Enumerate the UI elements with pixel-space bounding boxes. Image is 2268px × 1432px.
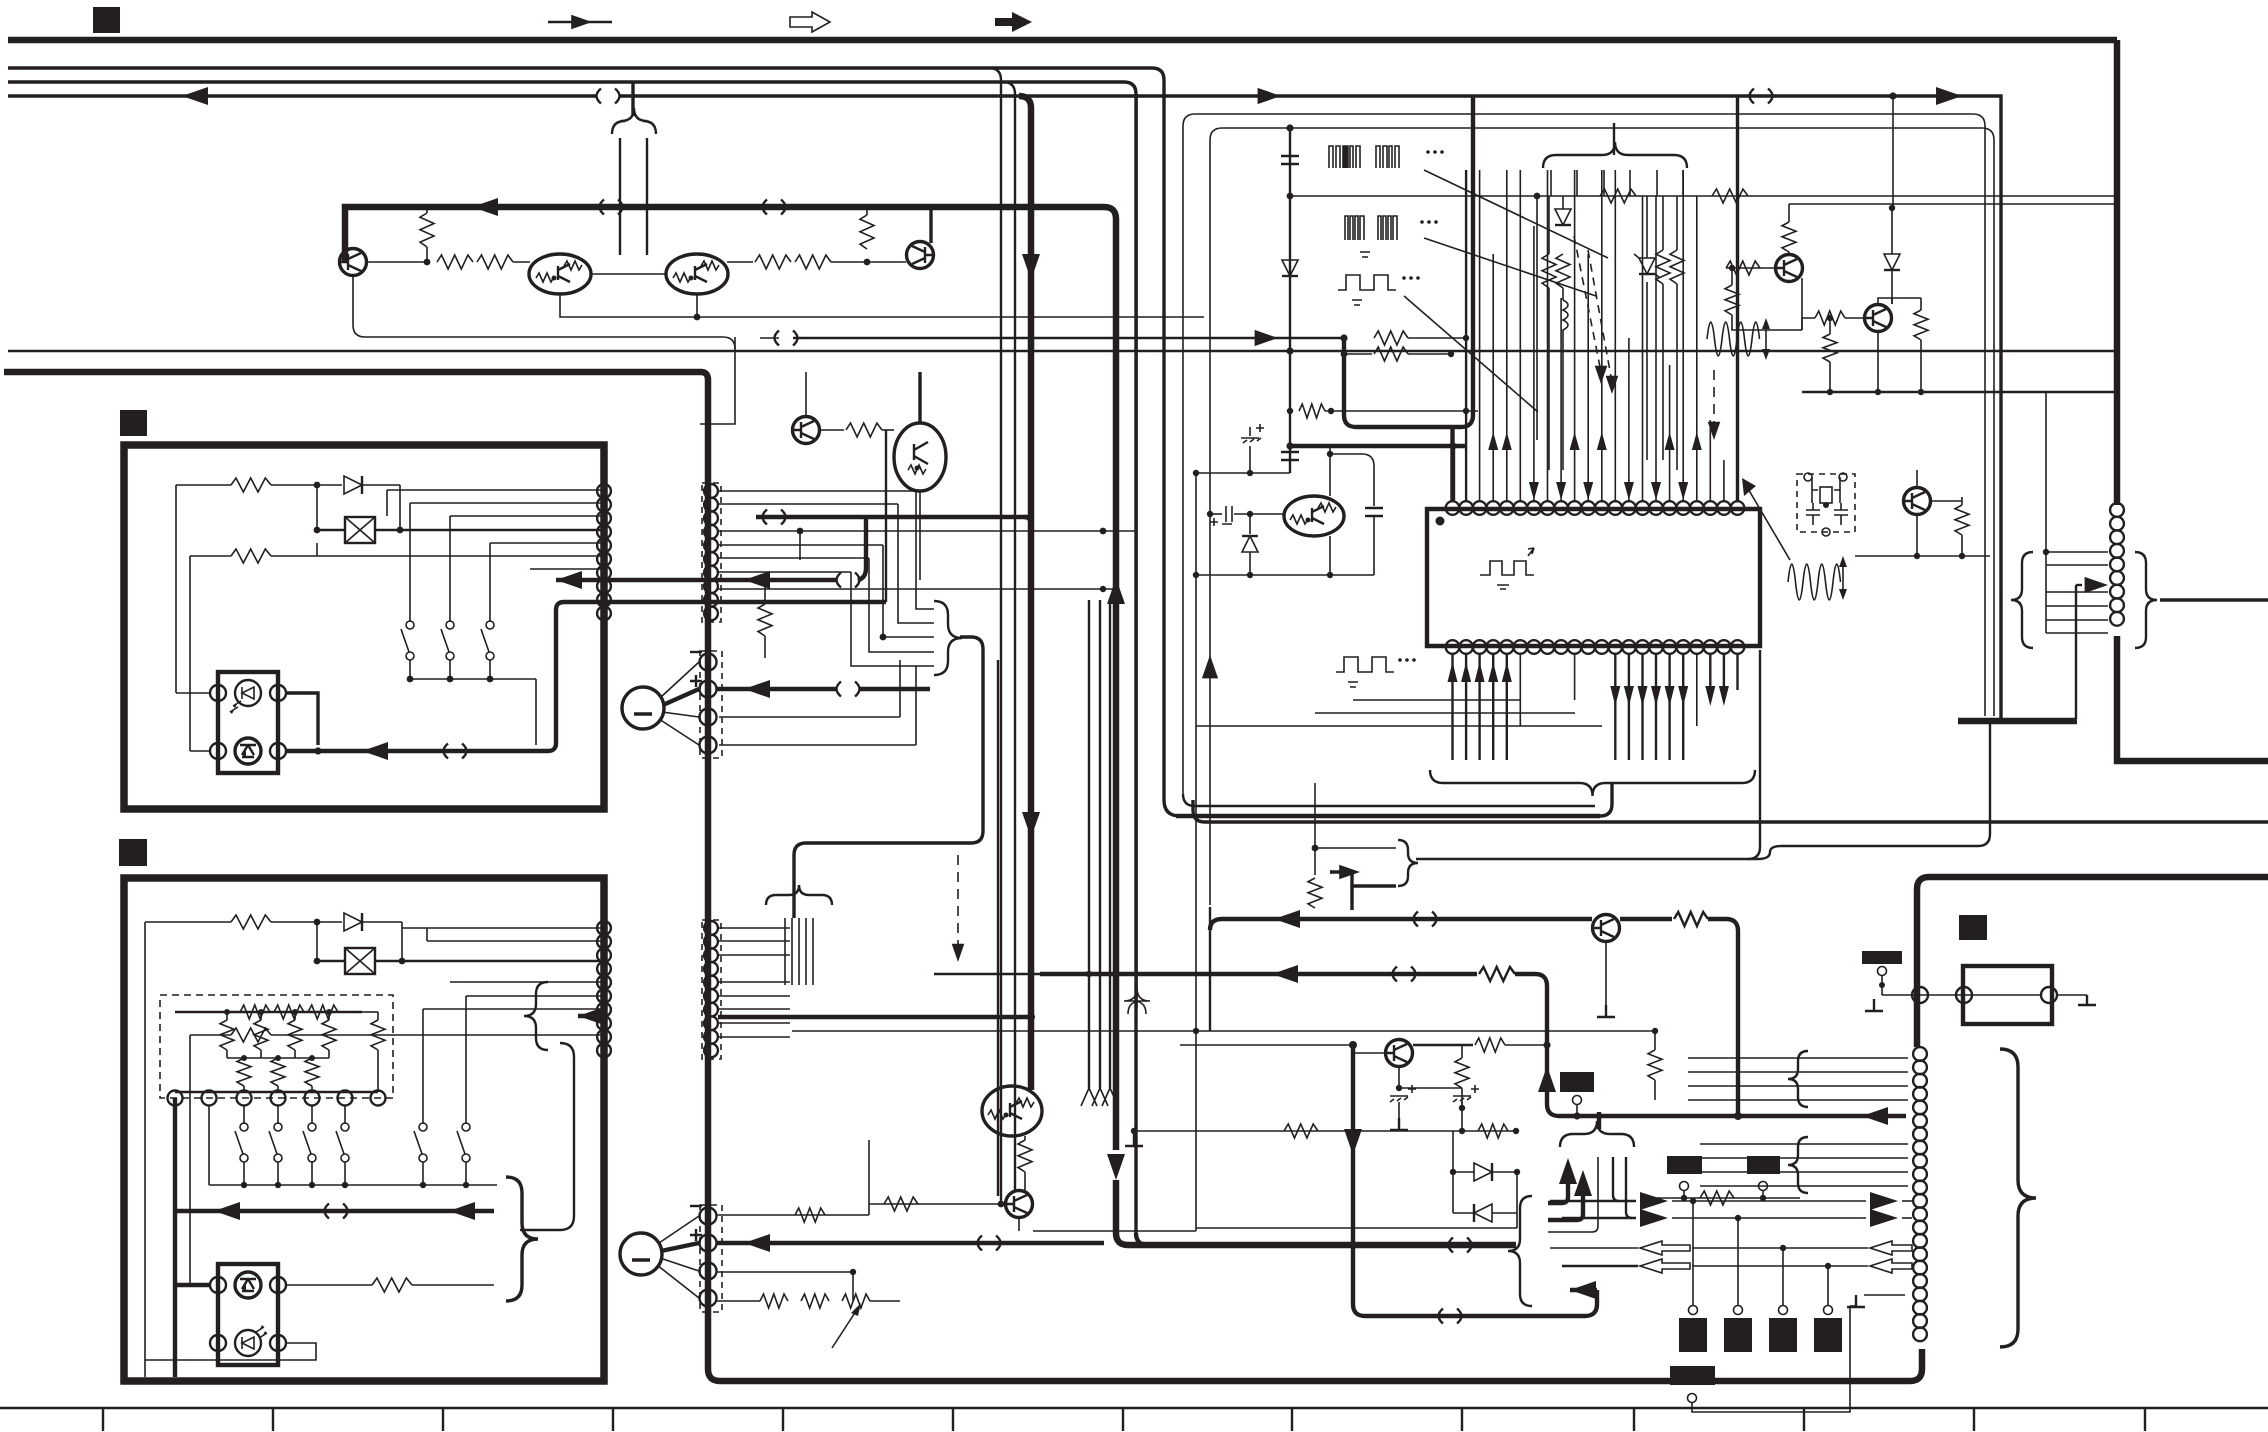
photo sensor Q8 [235,1272,261,1298]
black right arrow row 2 [1640,1209,1668,1227]
thick wire x=175 down to opto [173,1211,177,1377]
resistor R14 [231,1028,271,1042]
ground symbol right of fuse [2078,995,2096,1005]
trimmer arrow for VR1 [832,1308,858,1348]
junction dot y=1031 right end [1652,1028,1658,1034]
junction dot x=1738 on y=1116 [1734,1112,1742,1120]
arrowhead on fourth bus pointing right (mid) [1258,88,1281,104]
white outline left arrow row 3 [1640,1241,1690,1255]
wire matrix mid rail [227,1057,329,1059]
wire y=1045 into x=1353 [1180,1044,1353,1046]
wire pin to switch [344,1106,346,1124]
resistor R21 (vertical) [322,1020,336,1050]
wire down to fuse line 2 [401,922,403,961]
box frame: bottom right left edge lower [1910,1349,1922,1381]
label plus M2 [690,1229,702,1241]
wire left stub up [868,1140,870,1204]
corner x=1210 into y=919 [1210,919,1222,930]
terminal circle fuse left [1956,987,1972,1003]
arrowhead down on x=1031 wire (lower) [1022,812,1040,838]
thick vertical x=1116 corner into y=1245 rail [1116,1180,1128,1245]
wire R7 top [866,207,868,215]
wire M1 to minus terminal [661,662,699,697]
wire pin2 down [208,1106,210,1185]
IC U1 pin-1 marker dot [1436,517,1445,526]
electrolytic capacitor C10 [1390,1096,1408,1102]
terminal circle M1 aux2 [700,737,717,754]
opto block frame (box 1) [218,672,278,773]
resistor R55 [1475,1038,1505,1052]
dashed leader with arrow 1 [1574,236,1601,372]
arrowhead right on elbow wire [1339,865,1360,879]
resistor R47 (vertical) [1648,1050,1662,1080]
resistor R39 (vertical) [1725,285,1739,315]
wire rail y=556 [1855,555,1990,557]
junction dot y=1045 on riser [1543,1041,1550,1048]
junction dot fuse right [397,527,404,534]
wire rail y=196 [1290,195,2120,197]
arrowhead on fourth bus pointing left [182,87,208,105]
legend arrow 2 (open outline arrow) [790,12,830,32]
terminal circle M2 plus [700,1235,717,1252]
wire left rail to resistor R13 [145,921,231,923]
dashed leader with arrow 2 [1588,250,1612,382]
pulse waveform glyph 1 [1343,146,1348,168]
wire M2 terminal row 1 right [717,1214,869,1216]
small brace over comb [766,885,832,905]
brace over region G group [1560,1121,1634,1147]
arrowhead on fourth bus pointing right [1936,87,1962,105]
ground symbol x=1134 [1125,1134,1143,1146]
switch SW4a [240,1123,248,1131]
wire D8 row [1453,1171,1517,1173]
junction dot SW2 [447,676,454,683]
wire pin to switch [243,1106,245,1124]
wires D6/R35/R36 tops [1647,196,1677,258]
thick wire y=1016 from connector CN3 [578,1014,601,1018]
transistor Q9 [1776,255,1803,282]
thick wire y=602 through connector to x=886 [564,600,886,604]
wire arrow row 3 [1550,1247,1638,1249]
bus wire: thick bus to right edge at y=762 [2117,636,2268,761]
wire R39 to emitter node [1732,268,1802,330]
wire stub [1881,975,1883,995]
wire connector CN1 row 1 [387,489,601,491]
wire CN2 row4 right [718,544,883,546]
wire L1 down [1562,340,1564,470]
wire D10 down to rail y=575 [1249,552,1251,575]
thick bottom rail y=1381 [720,1378,1910,1385]
wire break on y=207 bus [600,200,623,215]
arrowhead left on y=1211 wire [214,1202,240,1220]
wire into opto top-left terminal [176,692,210,694]
wire M2 to aux1 [660,1258,699,1271]
wire stub G1 [1576,1104,1578,1116]
capacitor C4 [1365,508,1383,516]
wire vertical x=1100 [1099,600,1101,1088]
wire rounded path from brace down to y=1230 [520,1043,574,1230]
wire switch to bus [465,1162,467,1185]
wire drop x=1598 corner left [1548,1157,1598,1232]
wire M2 aux1 right [717,1271,853,1273]
dashed frame around connector CN2 [702,483,721,622]
dashed vertical leader with arrow [1713,370,1715,428]
crystal X1 dashed box [1797,474,1855,532]
wires from IC U1 bottom pins [1451,654,1453,760]
arrowhead up on x=1210 wire [1202,655,1218,678]
sine waveform symbol 2 [1788,564,1841,600]
wire: Q1 collector up-over line y=337 turning down at x=735 [353,276,735,349]
black square K3 [1769,1318,1797,1352]
wire aux1 step up [899,660,901,717]
wire aux2 step up [915,666,917,745]
thick bus corner down into vertical x=1116 [1104,207,1116,1150]
wire break on y=751 wire [444,744,467,759]
corner into y=1116 [1547,1104,1559,1116]
dashed vertical leader middle [957,855,959,950]
wire break on y=580 bus [837,573,860,588]
wire switch common bus y=1185 [209,1184,497,1186]
small brace x=1137 [1124,988,1150,1014]
resistor R36 (vertical) [1670,250,1684,284]
terminal circle opto2 top-right [270,1277,286,1293]
switch SW2 [446,621,454,629]
wire stepping into brace (5th) [851,572,934,666]
wire: vertical from y=337 corner to Q5 area [700,337,735,424]
wire switch SW3 feed [489,543,491,622]
fuse block rectangle [1963,966,2052,1024]
resistor R6 [795,255,831,269]
up arrowheads on IC bottom pin wires [1448,662,1458,682]
junction dot at R7 base node [864,259,871,266]
ground symbol x=1874 [1865,999,1883,1011]
wire y=806 from x=1183 corner heading right [1183,794,1595,806]
wire y=974 thin left part [934,973,1040,975]
resistor R25 (vertical) [371,1020,385,1050]
wire Q11 leads [1916,470,1918,556]
wire M2 to minus [659,1216,699,1243]
wire jog y=859 to y=846 to vertical x=1990 [1748,723,1990,859]
resistor R38 [1726,261,1760,275]
thick wire y=689 right of break [860,687,930,691]
transistor package Q4 (dual) [666,254,728,294]
junction dot x=1290 y=351 [1286,347,1293,354]
wire connector CN1 row 2 [410,502,601,504]
wire y=354 stub [1344,353,1372,355]
leader line from glyph 1 [1424,170,1608,258]
terminal circle M2 aux1 [700,1263,717,1280]
arrowhead pointing right on y=338 wire [1255,330,1278,346]
bus wire: main thick top bus [8,37,2117,44]
junction dot rail y=196 [1534,193,1541,200]
thick wire y=1243 from M2 plus to x=1104 [717,1241,1104,1245]
terminal circle M1 minus [700,654,717,671]
bold up arrow 2 [1574,1170,1592,1196]
wire resistor R2 bottom [426,247,428,262]
curly brace grouping wires to servo [934,601,962,675]
transistor package Q6 (vertical dual) [894,423,946,491]
resistor R33 (vertical) [1542,254,1556,288]
wire R26 right to brace [412,1284,494,1286]
wire: nested line y=128 from x=1210 to x=1994 [1210,128,1994,905]
wire break on y=1211 wire [325,1204,348,1219]
resistor R3 [437,255,473,269]
thick wire y=919 right of Q12 [1620,917,1672,921]
black label square P2 [1959,915,1987,940]
thick wire M1 to plus terminal [663,689,699,705]
junction dot on fourth bus [1889,92,1896,99]
resistor R32 [1712,189,1748,203]
thick bus y=517 [756,515,1028,519]
wire down to fuse line [399,485,401,530]
junction dot y=1272 [850,1269,856,1275]
brace left side region G [1508,1196,1532,1306]
wire Q10 emitter down [1877,332,1879,392]
wire C4 down to rail y=575 [1373,516,1375,575]
wire Q4 to resistor R5 [727,261,753,263]
wire y=995 through fuse block [1882,994,2042,996]
wire thin rail y=473 [1196,472,1290,474]
terminal circle matrix pin 1 [168,1091,183,1106]
switch SW6 [462,1123,470,1131]
wire emitter loop extension right [697,316,1204,318]
terminal circle matrix pin 3 [237,1091,252,1106]
wire break symbol on fourth bus [597,89,620,104]
down arrowheads on IC top pin wires [1529,482,1539,500]
wire from opto to corner [286,693,318,745]
motor M1 (capstan) [622,687,664,729]
wire to CN6 [1864,1294,1905,1296]
arrowhead left on y=974 wire [1272,965,1298,983]
thick rail y=1245 into brace tip [1128,1242,1516,1249]
wire R14 to connector CN3 [271,1034,601,1036]
resistor R44 [1674,912,1708,926]
wire SW2 to bus [449,660,451,679]
resistor R45 (vertical) [1455,1058,1469,1088]
transistor package Q3 (dual) [529,254,591,294]
wire connector CN1 row 4 [490,542,601,544]
wire resistor R2 top [426,207,428,213]
thick rail y=446 [1290,444,1466,448]
section label square 3 [119,839,147,866]
wire M1 to aux1 [662,712,699,717]
terminal circle opto2 bottom-left [210,1335,226,1351]
wire R40 to Q10 base [1845,317,1864,319]
arrowhead pointing up on vertical x=1116 [1107,578,1125,604]
wire opto2 bottom return [145,1343,316,1360]
junction dot x=1290 on rail y=196 [1287,193,1294,200]
resistor R20 (vertical) [288,1020,302,1050]
wire: emitter return loop under packages [560,294,697,317]
arrowhead left at end of x=1597 riser [1570,1281,1596,1299]
wire down from junction 2 [316,922,318,961]
terminal circle opto bottom-left [210,743,226,759]
diode D5 [1555,209,1571,225]
wire drop x=1613 corner right into arrow row 1 [1613,1157,1619,1201]
wire D7 leads [1891,208,1893,304]
label minus M1 [690,651,702,653]
wire y=338 stub left of break [760,337,779,339]
photo sensor Q7 [235,738,261,764]
wire y=514 to package Q22 [1234,513,1284,515]
wire R37 leads [1788,204,1790,254]
wire to resistor R14 [190,1034,231,1036]
small circle under label P1 [1878,967,1887,976]
terminal circle on CN6 bus [1912,987,1928,1003]
junction dot y=974 b [1112,970,1119,977]
wire: vertical x=1001 from bus y=68 down to transistor Q20 [989,68,1001,1196]
amplitude arrow 1 [1765,326,1767,352]
transistor Q10 [1865,305,1892,332]
wire: left feed line to transistor package Q3 [619,138,621,255]
brace stem wire down [1600,784,1612,816]
wire break on y=1316 [1439,1309,1462,1324]
terminal circle M2 minus [700,1208,717,1225]
wire loop from G4 [1692,1306,1850,1412]
terminal circle matrix pin 5 [305,1091,320,1106]
arrowhead down on x=1353 [1344,1129,1362,1155]
thick wire y=1211 [175,1209,494,1213]
thick wire pin1 feed [1451,446,1455,500]
transistor Q5 [793,417,820,444]
wire CN4 row right y=1023 [718,1022,790,1024]
thick wire corner x=858 up to y=517 bus [858,517,866,580]
wire to Q20 base [869,1203,1005,1205]
thick wire y=974 [1040,972,1477,976]
wire y=859 leftward to brace [1416,858,1748,860]
wire M1 aux2 right [719,744,916,746]
wire left rail to resistor R11 [190,555,231,557]
wire R12 bottom [764,636,766,658]
junction dot y=354 [1448,351,1454,357]
junction dot SW1 [407,676,414,683]
splayed wire feet at bundle ends [1081,1088,1118,1106]
wire SW3 to bus [489,660,491,679]
small circle X1 bottom [1822,528,1830,536]
wire into small brace top [1315,847,1396,849]
black label rect G1 [1560,1072,1594,1092]
junction dot top of x=1353 [1349,1041,1357,1049]
switch SW4b [274,1123,282,1131]
wire Q20 emitter [1018,1218,1020,1231]
inductor L1 (vertical coil) [1563,300,1568,340]
brace left of CN5 [2011,552,2033,648]
small circle under G3 [1759,1182,1768,1191]
wire: right feed line to transistor package Q4 [646,138,648,255]
resistor R48 (vertical) [1018,1140,1032,1172]
wire R48 leads [1024,1136,1026,1191]
terminal circle matrix pin 6 [338,1091,353,1106]
thick stub to left arrow [1570,1288,1597,1292]
curly brace over transistor pair feed lines [612,108,656,134]
box frame: left bottom block (box 2) [124,878,604,1381]
electrolytic capacitor C11 [1453,1096,1471,1102]
terminal circle opto2 bottom-right [270,1335,286,1351]
resistor R11 [231,549,271,563]
resistor R24 (vertical) [305,1058,319,1086]
wire opto2 to resistor R26 [286,1284,372,1286]
resistor R41 (vertical) [1823,334,1837,362]
resistor R31 [1600,189,1636,203]
wire Q11 collector [1931,500,1962,502]
crystal element [1820,487,1832,503]
wire R13 to diode D3 [271,921,342,923]
wire Q2 collector to y=207 bus [929,207,932,243]
wire fuse F1 to connector CN1 [375,529,601,531]
arrowhead left on y=1243 wire [744,1234,770,1252]
wire y=514 from x=1210 [1210,513,1222,515]
pulse waveform glyph 2 [1345,216,1397,240]
bold drop with corner left row y=1203 [1548,1170,1568,1203]
wire M1 to aux2 [659,719,699,745]
small circle X1 top-right [1839,473,1847,481]
wire left rail x=190 down [189,556,191,751]
wire switch to bus [422,1162,424,1185]
connector CN4 (box2 right column, 10 pins) [704,921,718,935]
switch SW5 [419,1123,427,1131]
wire pin to switch [277,1106,279,1124]
wire connector CN1 row 5 [530,568,601,570]
brace stem wire from third bus [631,82,634,116]
electrolytic capacitor C1 [1249,427,1251,436]
wire CN3 row6 [466,995,601,997]
thick wire: vertical x=1031 from bus y=96 down to package Q21 [1019,96,1031,1086]
terminal circle matrix pin 7 [371,1091,386,1106]
terminal circle opto bottom-right [270,743,286,759]
wire matrix top rail [175,1011,362,1013]
dashed terminal box M1 [700,651,722,758]
wire vertical x=1315 [1314,783,1316,875]
wire CN4 row right y=928 [718,927,790,929]
wire thin rail y=589 from connector to x=1116 [718,588,1114,590]
IC U1 top pin row (22 pins) [1446,501,1460,515]
resistor R2 (vertical) [420,213,434,247]
brace right of CN5 [2135,552,2157,648]
arrowhead pointing down on vertical x=1116 [1107,1154,1125,1180]
wire R25 leads [377,1012,379,1092]
diode D6 (zener) [1639,258,1655,274]
leader arrow to IC corner [1747,487,1790,560]
amplitude arrow 2 [1842,564,1844,592]
junction dot at R2/R3 [424,259,431,266]
small circle under G4 [1688,1394,1697,1403]
thick wire M2 to plus [661,1243,699,1251]
wire after VR1 [870,1300,900,1302]
resistor R26 [372,1278,412,1292]
wire Q22 emitter down [1329,536,1331,575]
wire arrow row 2 mid part [1672,1217,1866,1219]
section label square 1 [93,7,120,33]
wire matrix bottom rail [175,1091,378,1093]
up arrowheads on IC top pin wires [1488,432,1498,450]
wires feeding IC U1 top pins [1450,428,1454,501]
wire y=1088 [1399,1087,1462,1089]
arrowhead left on y=751 wire [362,742,388,760]
sine waveform symbol 1 [1707,322,1760,356]
wire Q5 to resistor R8 [820,429,844,431]
junction dot y=1131 [1513,1128,1519,1134]
wire switch to bus [311,1162,313,1185]
wire R43 leads [1961,497,1963,556]
resistor R13 [231,915,271,929]
brace over IC feed group [1543,142,1687,168]
black label rect G4 [1670,1366,1715,1385]
thick bus wire y=207 with corner at left [345,207,1104,250]
terminal circle opto top-left [210,685,226,701]
corner join x=1031 [1024,517,1031,525]
diode D1 [344,476,362,494]
wire jog to Q20 base line [868,1204,870,1215]
